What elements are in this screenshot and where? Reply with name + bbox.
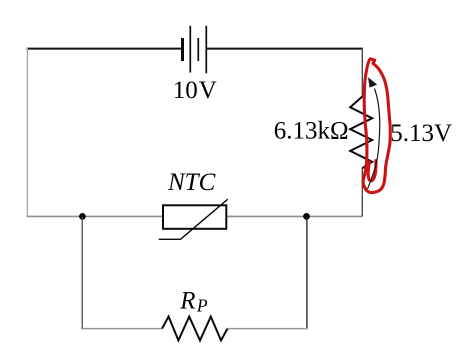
svg-text:P: P bbox=[196, 295, 208, 315]
wire right vertical upper bbox=[361, 48, 363, 98]
node A junction dot left bbox=[79, 213, 86, 220]
arrow inside red loop bbox=[368, 89, 380, 189]
wire left branch vertical bbox=[81, 216, 83, 329]
thermistor NTC diagonal stroke bbox=[159, 199, 228, 239]
node B junction dot right bbox=[303, 213, 310, 220]
wire bottom left bbox=[81, 328, 162, 330]
svg-text:R: R bbox=[179, 287, 195, 314]
wire right vertical lower bbox=[361, 168, 363, 217]
svg-text:NTC: NTC bbox=[167, 169, 216, 196]
wire top-left (battery negative lead) bbox=[27, 48, 183, 50]
wire left vertical bbox=[26, 48, 28, 218]
svg-text:10V: 10V bbox=[173, 77, 217, 104]
resistor R1 6.13k (right vertical zigzag) bbox=[350, 97, 372, 169]
wire right branch vertical bbox=[306, 216, 308, 329]
battery B1 (10V cells) bbox=[183, 26, 207, 74]
svg-text:5.13V: 5.13V bbox=[390, 120, 452, 147]
wire middle horizontal bbox=[27, 215, 363, 217]
wire top-right (battery positive lead) bbox=[206, 48, 362, 50]
wire bottom right bbox=[228, 328, 308, 330]
red loop inner curl bbox=[368, 161, 376, 181]
resistor RP (bottom zigzag) bbox=[162, 317, 228, 341]
svg-text:6.13kΩ: 6.13kΩ bbox=[274, 118, 349, 145]
red loop annotation around R1 bbox=[363, 59, 390, 193]
thermistor NTC body bbox=[163, 205, 226, 229]
